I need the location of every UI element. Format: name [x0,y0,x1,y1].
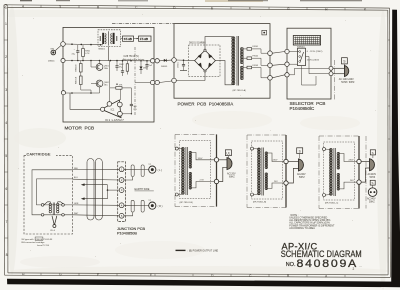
frame ruler labels top [22,5,367,12]
frame ruler ticks right [388,40,390,238]
op-amp IC1 [101,100,123,118]
fuse F8102 [243,56,261,60]
svg-text:0-88 75±10 (V): 0-88 75±10 (V) [124,56,140,58]
svg-text:ACCORDING TO AREA: ACCORDING TO AREA [289,227,315,230]
svg-text:50HZ: 50HZ [299,177,305,179]
selector input pin 3 [285,73,289,77]
title drawing number [286,258,362,271]
svg-text:POWER PCB P1040850lA: POWER PCB P1040850lA [178,102,234,107]
approval mark box plug 3 [370,150,375,158]
bridge rectifier D8101 [195,49,216,72]
transformer option 1 part number [180,202,194,204]
svg-text:0→115V (230V): 0→115V (230V) [307,51,323,53]
unit boundary dash-dot line above motor pcb [112,22,174,24]
capacitor C8001 [72,45,80,61]
transformer option box 2 (dash-dot enclosure) [247,135,286,208]
cartridge stylus [50,216,57,232]
resistor R8002 [76,61,83,73]
svg-text:: (B) POWER OUTPUT LINE: : (B) POWER OUTPUT LINE [188,250,219,253]
junction pin 3 [119,188,124,193]
output wire R [124,205,149,216]
svg-text:F8102: F8102 [253,56,260,58]
svg-text:3: 3 [59,5,61,9]
motor M8001 dashed enclosure [98,30,121,47]
cartridge internal wires [32,170,73,215]
transformer option 3 input pins [323,148,331,197]
selector internal wires [289,52,329,75]
svg-text:D8101 S1WB60: D8101 S1WB60 [189,43,206,45]
svg-text:AC 110V-240V: AC 110V-240V [339,78,354,81]
svg-text:AC240V: AC240V [368,173,377,176]
resistor R8004 [110,84,131,90]
svg-text:50HZ / 60HZ: 50HZ / 60HZ [341,82,355,84]
transformer option 1 input pins [175,147,183,196]
cartridge coil pins [41,204,64,217]
svg-text:FT-3B: FT-3B [140,37,148,41]
shield drain wires to earth pin [81,183,119,200]
AC plug option 1 voltage note [227,172,236,178]
transformer T8101-B inner dashed box [180,141,211,199]
svg-text:CD-4: CD-4 [50,230,56,232]
selector input pin 1 [285,49,289,53]
svg-text:IC1: IC1 [111,109,115,112]
svg-text:(GND): (GND) [48,61,55,63]
svg-text:…: … [359,263,362,267]
frame ruler ticks left [4,40,8,238]
selector voltage notes [307,51,323,61]
wire external terminal to J1 [55,45,61,51]
svg-text:AC240V: AC240V [297,173,306,176]
transformer option 1 core [186,147,187,195]
svg-text:RH connected cartridge: RH connected cartridge [22,241,46,244]
power bus pin 1a [214,158,218,162]
approval mark box plug 1 [225,150,231,160]
svg-text:ST-3B: ST-3B [124,37,132,41]
svg-text:AC120V: AC120V [227,172,236,175]
svg-text:F: F [249,7,251,11]
RCA jack L [149,163,163,173]
svg-text:(8P-T8101-A): (8P-T8101-A) [233,89,247,92]
wire motor to power upper with diode D8001 [159,59,171,68]
svg-text:R8031K: R8031K [76,76,78,84]
svg-text:S: S [372,181,374,185]
wire power to selector 3 [272,75,285,78]
speed label box ST-3B [121,36,134,41]
AC plug (selector output) [333,65,349,76]
transformer option 2 winding primary [258,148,261,195]
power output pin 3 [261,68,272,81]
resistor R8001 [82,45,91,61]
frame corner mark [4,4,8,8]
wire motor to power lower [135,81,172,83]
power bus pin 1b [214,179,218,183]
wire A (top rail y=44) [65,43,103,45]
svg-text:4: 4 [5,121,7,125]
SELECTOR PCB label [290,101,326,111]
svg-text:F8101: F8101 [253,46,260,48]
power pcb input wires [176,37,232,85]
junction pin 1 [119,167,124,172]
transformer option 2 part number [253,202,267,204]
fuse F8103 [243,65,261,69]
wire B (mid rail y=60.5) [65,60,150,62]
svg-text:Adjusted at the factory: Adjusted at the factory [123,58,146,61]
svg-text:2SA: 2SA [104,67,108,70]
AC plug option 2 voltage note [297,173,306,179]
transformer option 2 winding secondary [265,152,267,190]
scan edge top [20,0,362,2]
SELECTOR PCB board outline [287,28,331,99]
power bus pin 2b [284,181,288,185]
NOTE block [289,214,335,230]
transformer option 1 winding secondary [189,151,191,189]
svg-text:P1040850lC: P1040850lC [290,106,316,111]
motor wire stub to wire B [107,47,109,61]
svg-text:( R ): ( R ) [158,205,163,208]
svg-text:6: 6 [5,187,7,191]
AC plug option 3 [361,159,374,182]
power output pin 2 [261,58,272,67]
selector input pin 2 [285,62,289,66]
svg-text:MG: MG [51,48,55,50]
svg-text:PLUG IN: PLUG IN [44,239,53,241]
svg-text:W/ type with: W/ type with [22,238,35,241]
frame ruler labels left [5,22,8,257]
motor-to-power connector pair upper [150,59,159,63]
capacitor C8002 [115,61,124,71]
MOTOR PCB label [65,125,95,130]
wire power to selector 1 [272,52,285,54]
svg-text:230V (240V): 230V (240V) [307,60,320,62]
svg-text:(+): (+) [149,199,152,201]
output wire L [124,169,149,180]
svg-text:C8101: C8101 [178,61,180,68]
partition dash-dot line inside motor pcb [134,47,136,116]
selector output pin lower [329,72,333,76]
svg-text:JUNCTION PCB: JUNCTION PCB [117,227,146,231]
output cable shield L2 [141,165,144,177]
svg-text:CARTRIDGE: CARTRIDGE [27,152,51,156]
signal wires cartridge to junction [73,169,120,216]
connector J1 pin (motor +) [61,42,66,47]
power pcb connector pin upper [172,58,177,63]
MOTOR PCB board outline [63,27,154,122]
svg-text:240V: 240V [349,160,354,162]
power output pin 1 [261,49,272,56]
wire power to selector 2 [272,64,285,65]
POWER PCB label [178,102,234,107]
mounting hole symbol [262,30,267,35]
output cable shield L1 [131,165,134,177]
RCA jack R [149,199,163,209]
svg-text:120V: 120V [198,158,203,160]
transformer option 3 core [334,148,335,196]
svg-text:4.7K: 4.7K [85,53,90,55]
legend: power output line [176,250,219,253]
cartridge output wire labels [74,168,79,215]
motor reference label [99,48,106,50]
POWER PCB board outline [174,24,270,99]
transformer option 3 winding primary [330,149,333,196]
auxiliary dash-dot line right of box 3 [365,136,367,209]
scan edge bottom (black strip) [7,279,400,287]
svg-text:(+): (+) [149,163,152,165]
transformer option 1 winding primary [182,148,185,195]
zener diode D8002 [140,61,149,74]
selector internal lower wire [302,66,317,85]
svg-text:base PC 1B: base PC 1B [37,245,49,247]
transformer option 2 core [262,148,263,196]
transformer option 2 input pins [251,147,259,196]
junction pin 2 [119,178,124,183]
cartridge pickup coils [44,202,63,215]
transformer T8401-C inner dashed box [324,142,355,200]
AC plug option 3 voltage note [368,173,377,179]
svg-text:AC240V: AC240V [367,198,376,201]
junction pin 4 [119,203,124,208]
svg-text:240V: 240V [273,160,278,162]
factory adjust note [123,56,146,61]
svg-text:G: G [59,273,62,277]
svg-text:2SC: 2SC [104,85,108,87]
transformer option 3 winding secondary [337,152,339,190]
motor-to-power connector pair lower [150,80,159,84]
svg-text:7: 7 [6,220,8,224]
svg-text:4: 4 [22,5,24,9]
svg-text:F8103: F8103 [253,65,260,67]
junction pin 5 [119,213,124,218]
approval mark box at AC plug [342,58,348,69]
svg-text:50HZ: 50HZ [370,177,376,179]
fuse F8101 [243,46,261,50]
transformer option 2 output wires [268,153,284,188]
svg-text:UL: UL [226,151,230,155]
transformer option box 1 (dash-dot enclosure) [175,135,217,207]
svg-text:S: S [372,151,374,155]
connector J1 pin (motor -) [61,58,65,62]
svg-text:SW8401: SW8401 [297,46,306,48]
cartridge note text [22,238,53,247]
svg-text:D8001: D8001 [161,66,168,68]
external motor terminal MG [48,48,56,62]
JUNCTION PCB label [117,227,146,236]
CARTRIDGE label [27,152,51,156]
shielded cable jacket 1 [87,159,94,221]
voltage selector switch SW8401 [297,46,306,65]
svg-text:NO.: NO. [286,262,296,268]
svg-text:Q801: Q801 [104,66,110,68]
transformer option 3 part number [325,203,339,205]
op-amp feedback wires [110,61,132,115]
svg-text:24V: 24V [274,181,278,183]
svg-text:R8021K: R8021K [76,64,78,72]
transformer T8101 primary winding [232,37,235,85]
title SCHEMATIC DIAGRAM [281,249,362,259]
svg-text:EARTH SIDE: EARTH SIDE [135,188,150,191]
transformer T8101 part number [233,89,247,92]
cartridge note CMOS box [35,237,43,240]
transistor Q8002 [94,80,110,93]
connector J1 pin (ground) [61,91,65,95]
svg-text:S: S [299,149,301,153]
svg-text:24V: 24V [350,180,354,182]
bridge rectifier dashed enclosure [189,45,221,77]
output cable shield R2 [141,200,144,212]
output cable shield R1 [131,200,134,212]
wire R8002/Q8001 link [81,61,94,94]
transistor Q8001 [94,61,110,71]
paper speckles [18,14,376,257]
svg-text:840809A: 840809A [297,258,359,270]
frame ruler ticks top [41,5,345,10]
transformer option 3 output wires [340,154,357,189]
capacitor C8005 [130,88,138,114]
AC plug voltage note [339,78,355,84]
AC plug option 1 [219,158,232,182]
capacitor C8004 [145,60,153,70]
capacitor C8101 [178,60,188,70]
scan edge right (black strip) [391,10,400,287]
transformer T8401-B inner dashed box [252,141,283,199]
svg-text:F: F [97,273,99,277]
svg-text:CMOS: CMOS [36,239,43,241]
AC plug option 4 voltage note [367,198,376,204]
resistor R8006 [126,61,128,75]
svg-text:5: 5 [5,154,7,158]
power bus pin 2a [284,159,288,163]
AC plug option 2 [288,159,303,183]
shielded cable jacket 2 [95,159,102,221]
power pcb connector pin lower [172,78,177,83]
transformer option box 3 (dash-dot enclosure) [319,136,359,209]
frame ruler labels bottom [22,272,328,278]
approval mark box plug 2 [297,148,303,159]
wire C (lower rail y=93) [66,92,100,94]
transformer T8101 secondary winding [240,48,243,80]
svg-text:50HZ: 50HZ [369,202,375,204]
svg-text:8: 8 [6,253,8,257]
power bus pin 3b [357,180,361,184]
transformer option 1 output wires [192,153,215,188]
svg-text:G: G [287,7,290,11]
EARTH SIDE note [135,188,154,191]
unit boundary dash-dot right of selector [334,60,336,100]
svg-text:IC1 LA5527: IC1 LA5527 [105,118,124,122]
transformer T8101 core [237,36,239,86]
svg-text:2: 2 [353,267,355,271]
svg-text:(8P-T8401-B): (8P-T8401-B) [253,202,267,204]
AC plug option 4 (socket face) [368,188,377,197]
svg-text:BLU: BLU [74,177,78,179]
svg-text:P1040850B: P1040850B [117,232,137,236]
capacitor C8003 [121,61,124,76]
bridge rectifier D8101 label [189,43,206,45]
speed label box FT-3B [134,36,152,41]
svg-text:3: 3 [5,88,7,92]
svg-text:2: 2 [5,55,7,59]
svg-text:60HZ: 60HZ [229,176,235,178]
CARTRIDGE dashed enclosure [24,152,73,234]
frame ruler ticks bottom [41,273,345,277]
svg-text:1: 1 [5,22,7,26]
approval mark box plug 4 [370,180,375,188]
op-amp IC1 label [105,118,124,122]
motor M8001 symbol [100,31,117,45]
svg-text:( L ): ( L ) [158,169,163,172]
wire C to op-amp input [70,93,100,109]
svg-text:(8P-T8101-B): (8P-T8101-B) [180,202,194,204]
JUNCTION PCB connector body [118,162,126,222]
title AP-XI/C [282,241,318,251]
voltage selector hatched label plate [293,36,320,46]
resistor R8003 [76,72,83,88]
power bus pin 3a [357,159,361,163]
svg-text:MOTOR PCB: MOTOR PCB [65,125,95,130]
svg-text:2.5V: 2.5V [200,180,205,182]
selector output pin upper [329,66,333,70]
svg-text:(8P-T8401-C): (8P-T8401-C) [325,203,339,205]
svg-text:Q802: Q802 [104,82,110,84]
svg-text:M8001: M8001 [99,48,106,50]
